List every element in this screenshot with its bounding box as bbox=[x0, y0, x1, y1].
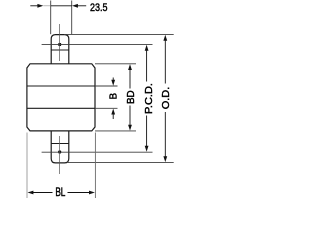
sprocket hub body outline bbox=[27, 64, 95, 131]
BD bottom extension line bbox=[95, 130, 136, 132]
svg-text:B: B bbox=[109, 93, 120, 100]
BD top extension line bbox=[95, 63, 136, 65]
OD top extension line bbox=[64, 33, 174, 35]
BL label bbox=[55, 187, 65, 200]
BL dimension line with outward arrows bbox=[28, 191, 34, 195]
PCD dimension line lower segment, arrow down bbox=[146, 116, 148, 148]
BL right extension line bbox=[94, 133, 96, 199]
BD label bbox=[126, 90, 137, 104]
bottom tooth outline bbox=[51, 131, 69, 163]
bottom tooth seat line bbox=[51, 143, 69, 145]
PCD dimension line upper segment, arrow up bbox=[145, 45, 149, 51]
top roller center dot bbox=[58, 43, 61, 46]
top PCD centerline / extension bbox=[42, 43, 153, 45]
svg-text:P.C.D.: P.C.D. bbox=[144, 83, 155, 114]
top tooth seat line bbox=[51, 49, 69, 51]
top tooth outline bbox=[51, 35, 69, 64]
OD dimension line upper segment, arrow up bbox=[163, 35, 167, 41]
B dimension line lower segment, arrow up bbox=[112, 113, 114, 120]
bore line lower bbox=[27, 107, 95, 109]
B top extension line bbox=[95, 85, 118, 87]
OD bottom extension line bbox=[68, 162, 174, 164]
bottom roller center dot bbox=[58, 150, 61, 153]
BD dimension line lower segment, arrow down bbox=[129, 106, 131, 127]
OD label bbox=[161, 87, 172, 110]
OD dimension line lower segment, arrow down bbox=[164, 112, 166, 158]
svg-text:O.D.: O.D. bbox=[161, 87, 172, 110]
23.5 right arrow with tail bbox=[72, 4, 78, 8]
svg-text:BL: BL bbox=[55, 187, 65, 200]
23.5 dimension line middle segment bbox=[51, 5, 72, 7]
bottom PCD centerline / extension bbox=[42, 151, 153, 153]
bore line upper bbox=[27, 85, 95, 87]
BD dimension line upper segment, arrow up bbox=[128, 64, 132, 70]
BL left extension line bbox=[26, 133, 28, 199]
PCD label bbox=[144, 83, 155, 114]
B dimension line upper segment, arrow down bbox=[112, 78, 114, 83]
23.5 dimension line left tail with right arrow bbox=[30, 5, 38, 7]
svg-text:BD: BD bbox=[126, 90, 137, 104]
svg-text:23.5: 23.5 bbox=[90, 2, 108, 14]
B label bbox=[109, 93, 120, 100]
23.5 right extension line bbox=[71, 1, 73, 35]
23.5 left extension line bbox=[50, 1, 52, 35]
bottom tooth vertical centerline bbox=[59, 136, 61, 174]
top tooth vertical centerline bbox=[59, 24, 61, 61]
B bottom extension line bbox=[95, 107, 118, 109]
